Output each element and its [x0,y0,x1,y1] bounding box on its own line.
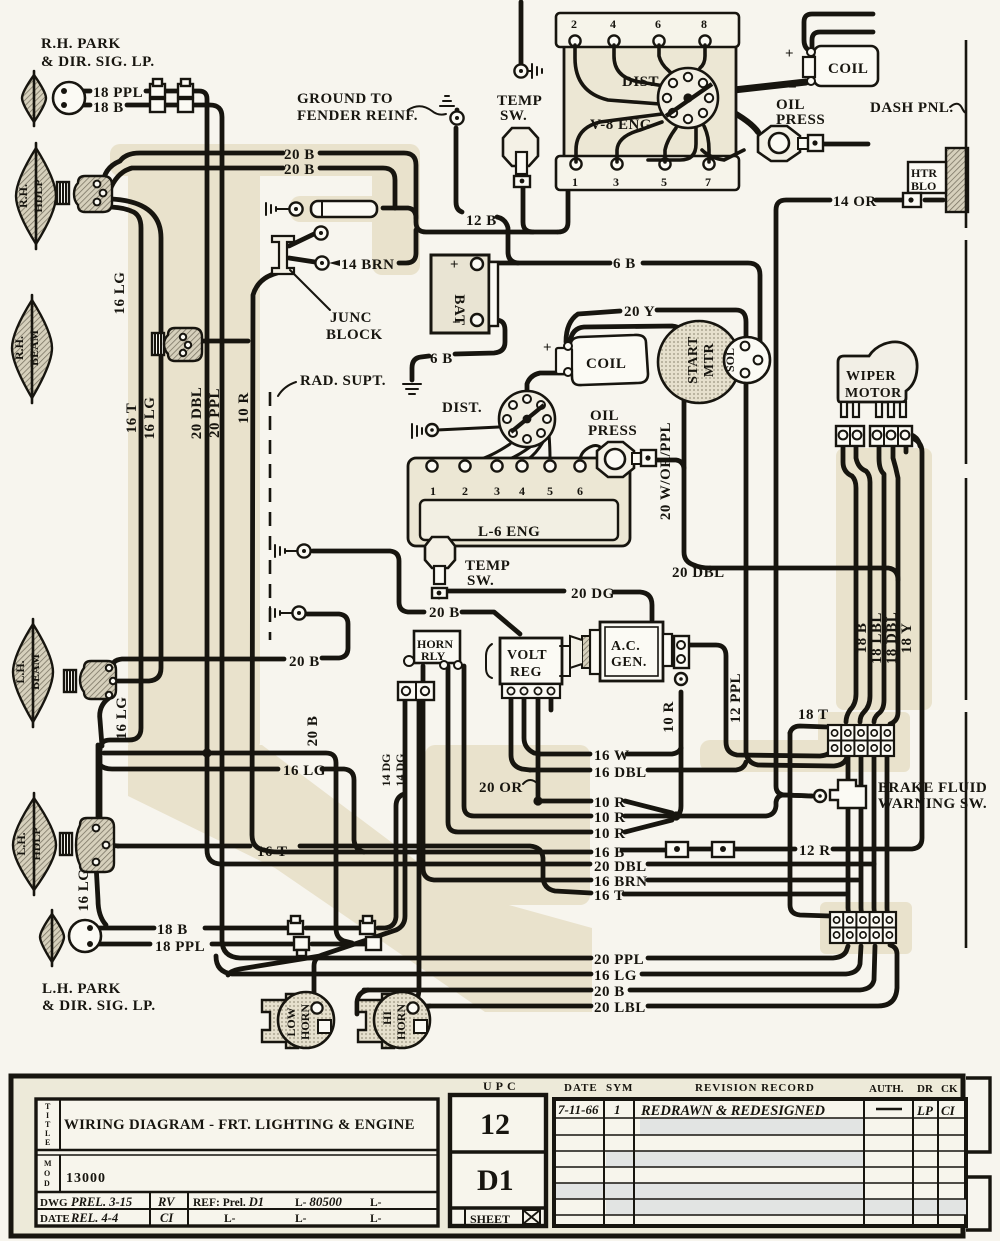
svg-text:16 W: 16 W [594,748,629,764]
svg-text:20 B: 20 B [594,984,625,1000]
svg-text:18 T: 18 T [798,707,828,723]
svg-text:MTR: MTR [702,343,717,378]
svg-text:10 R: 10 R [594,795,626,811]
svg-text:18 DBL: 18 DBL [884,612,900,665]
svg-text:+: + [785,46,794,62]
svg-text:16 LG: 16 LG [594,968,637,984]
svg-text:CI: CI [160,1211,174,1225]
svg-text:7-11-66: 7-11-66 [558,1102,599,1117]
svg-text:18 PPL: 18 PPL [93,85,143,101]
svg-text:12: 12 [480,1108,510,1141]
svg-text:HDLP: HDLP [31,179,45,212]
svg-text:CK: CK [941,1083,958,1095]
svg-text:14 DG: 14 DG [379,754,393,787]
svg-text:HDLP: HDLP [29,827,43,860]
svg-text:BEAM: BEAM [27,330,41,366]
svg-text:20 PPL: 20 PPL [207,388,223,438]
svg-text:4: 4 [610,17,616,31]
svg-text:DATE: DATE [564,1082,598,1094]
svg-text:RLY: RLY [421,649,446,663]
svg-text:LOW: LOW [284,1007,298,1036]
svg-text:6: 6 [655,17,661,31]
svg-text:14 BRN: 14 BRN [341,257,394,273]
svg-text:7: 7 [705,175,711,189]
svg-text:20 B: 20 B [305,716,321,747]
svg-text:16 LG: 16 LG [76,869,92,912]
svg-text:WIRING DIAGRAM - FRT. LIGHTING: WIRING DIAGRAM - FRT. LIGHTING & ENGINE [64,1117,415,1133]
svg-text:COIL: COIL [828,61,868,77]
svg-text:6: 6 [577,484,583,498]
svg-text:T: T [45,1120,51,1129]
svg-text:L- 80500: L- 80500 [295,1194,342,1209]
svg-text:WARNING SW.: WARNING SW. [878,796,987,812]
svg-text:AUTH.: AUTH. [869,1083,904,1095]
svg-text:O: O [44,1169,50,1178]
svg-text:10 R: 10 R [661,701,677,733]
svg-text:1: 1 [572,175,578,189]
svg-text:JUNC: JUNC [330,310,372,326]
svg-text:BLO: BLO [911,179,936,193]
svg-text:18 PPL: 18 PPL [155,939,205,955]
svg-text:14 DG: 14 DG [393,754,407,787]
svg-text:20 DG: 20 DG [571,586,615,602]
svg-text:10 R: 10 R [594,810,626,826]
svg-text:WIPER: WIPER [846,369,896,384]
svg-text:16 T: 16 T [257,844,287,860]
svg-text:18 Y: 18 Y [899,622,915,653]
svg-text:BRAKE FLUID: BRAKE FLUID [878,780,987,796]
svg-text:16 LG: 16 LG [114,697,130,740]
svg-text:RV: RV [157,1195,176,1209]
svg-text:DIST.: DIST. [442,400,482,416]
svg-text:20 B: 20 B [429,605,460,621]
svg-text:GEN.: GEN. [611,655,647,670]
svg-text:6 B: 6 B [613,256,636,272]
svg-text:20 OR: 20 OR [479,780,523,796]
svg-text:LP: LP [916,1103,934,1118]
svg-text:SW.: SW. [467,573,494,589]
svg-text:18 B: 18 B [157,922,188,938]
svg-text:M: M [44,1159,52,1168]
svg-text:D1: D1 [477,1164,514,1197]
svg-text:6 B: 6 B [430,351,453,367]
svg-text:L-6 ENG: L-6 ENG [478,524,540,540]
svg-text:DASH PNL.: DASH PNL. [870,100,954,116]
svg-text:DIST: DIST [622,74,659,90]
svg-text:2: 2 [462,484,468,498]
svg-text:1: 1 [614,1102,621,1117]
svg-text:16 T: 16 T [124,403,140,433]
svg-text:10 R: 10 R [236,392,252,424]
svg-text:DR: DR [917,1083,934,1095]
svg-text:20 B: 20 B [289,654,320,670]
svg-text:HTR: HTR [911,166,937,180]
svg-text:UPC: UPC [483,1079,520,1093]
svg-text:V-8 ENG: V-8 ENG [590,117,652,133]
svg-text:MOTOR: MOTOR [845,386,902,401]
svg-text:R.H. PARK: R.H. PARK [41,36,121,52]
svg-text:CI: CI [941,1103,956,1118]
svg-text:TEMP: TEMP [497,93,542,109]
svg-text:COIL: COIL [586,356,626,372]
svg-text:HI: HI [380,1011,394,1025]
svg-text:3: 3 [613,175,619,189]
svg-text:13000: 13000 [66,1171,106,1186]
svg-text:L-: L- [370,1213,382,1225]
svg-text:BLOCK: BLOCK [326,327,383,343]
svg-text:OIL: OIL [776,97,805,113]
svg-text:L.H. PARK: L.H. PARK [42,981,121,997]
svg-text:HORN: HORN [394,1004,408,1040]
svg-text:12 B: 12 B [466,213,497,229]
svg-text:L.H.: L.H. [13,660,27,683]
svg-text:20 LBL: 20 LBL [594,1000,646,1016]
svg-text:16 DBL: 16 DBL [594,765,647,781]
svg-text:+: + [450,257,459,273]
svg-text:20 B: 20 B [284,162,315,178]
svg-text:FENDER REINF.: FENDER REINF. [297,108,418,124]
svg-text:R.H.: R.H. [12,336,26,360]
svg-text:L-: L- [224,1213,236,1225]
svg-text:+: + [543,340,552,356]
svg-text:20 W/OR/PPL: 20 W/OR/PPL [658,422,674,520]
svg-text:18 B: 18 B [93,100,124,116]
svg-text:L: L [45,1129,50,1138]
svg-text:20 PPL: 20 PPL [594,952,644,968]
svg-text:−: − [545,367,554,383]
svg-text:20 DBL: 20 DBL [672,565,725,581]
svg-text:PRESS: PRESS [776,112,825,128]
svg-text:T: T [45,1102,51,1111]
svg-text:VOLT: VOLT [507,648,547,663]
svg-text:D: D [44,1179,50,1188]
svg-text:20 Y: 20 Y [624,304,655,320]
svg-text:4: 4 [519,484,525,498]
svg-text:PRESS: PRESS [588,423,637,439]
svg-text:TEMP: TEMP [465,558,510,574]
svg-text:GROUND TO: GROUND TO [297,91,393,107]
svg-text:REG: REG [510,665,542,680]
svg-text:18 B: 18 B [854,623,870,654]
svg-text:20 DBL: 20 DBL [189,387,205,440]
svg-text:PREL. 3-15: PREL. 3-15 [71,1195,132,1209]
svg-text:1: 1 [430,484,436,498]
svg-text:A.C.: A.C. [611,639,640,654]
svg-text:2: 2 [571,17,577,31]
svg-text:3: 3 [494,484,500,498]
svg-text:BEAM: BEAM [28,654,42,690]
svg-text:OIL: OIL [590,408,619,424]
svg-text:10 R: 10 R [594,826,626,842]
svg-text:16 T: 16 T [594,888,624,904]
svg-text:SHEET: SHEET [470,1212,510,1226]
svg-text:& DIR. SIG. LP.: & DIR. SIG. LP. [42,998,156,1014]
svg-text:16 LG: 16 LG [112,272,128,315]
svg-text:SW.: SW. [500,108,527,124]
svg-text:HORN: HORN [298,1004,312,1040]
svg-text:L-: L- [370,1197,382,1209]
svg-text:I: I [46,1111,49,1120]
svg-text:20 DBL: 20 DBL [594,859,647,875]
svg-text:L.H.: L.H. [14,832,28,855]
svg-text:20 B: 20 B [284,147,315,163]
svg-text:5: 5 [547,484,553,498]
svg-text:E: E [45,1138,50,1147]
svg-text:5: 5 [661,175,667,189]
svg-text:16 LG: 16 LG [142,397,158,440]
svg-text:SOL: SOL [723,348,737,372]
svg-text:12 R: 12 R [799,843,831,859]
svg-text:& DIR. SIG. LP.: & DIR. SIG. LP. [41,54,155,70]
svg-text:REVISION RECORD: REVISION RECORD [695,1082,815,1094]
svg-text:12 PPL: 12 PPL [728,673,744,723]
svg-text:REF: Prel. D1: REF: Prel. D1 [193,1195,264,1209]
svg-text:16 LG: 16 LG [283,763,326,779]
svg-text:DATE: DATE [40,1213,70,1225]
svg-text:−: − [788,80,797,96]
svg-text:SYM: SYM [606,1082,633,1094]
svg-text:R.H.: R.H. [16,184,30,208]
svg-text:BAT: BAT [451,294,467,325]
svg-text:L-: L- [295,1213,307,1225]
svg-text:RAD. SUPT.: RAD. SUPT. [300,373,386,389]
svg-text:8: 8 [701,17,707,31]
svg-text:DWG: DWG [40,1197,68,1209]
svg-text:REL. 4-4: REL. 4-4 [70,1211,118,1225]
svg-text:REDRAWN & REDESIGNED: REDRAWN & REDESIGNED [640,1103,826,1119]
svg-text:START: START [686,336,701,384]
svg-text:14 OR: 14 OR [833,194,877,210]
svg-text:18 LBL: 18 LBL [869,612,885,664]
